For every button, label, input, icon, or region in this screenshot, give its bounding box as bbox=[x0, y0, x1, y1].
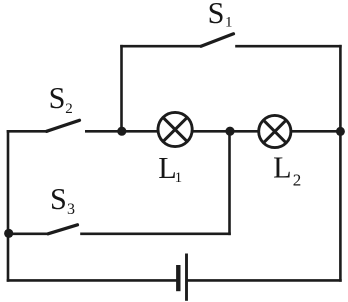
node D (junction dot, middle bus / right wall) bbox=[336, 127, 345, 136]
wire: left wall, middle-bus corner down to bottom corner bbox=[7, 131, 10, 280]
label L2 bbox=[273, 151, 301, 190]
battery: negative plate (short thick bar) bbox=[176, 265, 180, 291]
battery: positive plate (tall thin bar) bbox=[185, 254, 188, 301]
wire: node A to lamp L1 bbox=[122, 130, 158, 133]
label S2 bbox=[49, 81, 73, 117]
svg-text:S: S bbox=[208, 0, 225, 30]
wire: node C to S3 left contact bbox=[9, 233, 48, 236]
label S1 bbox=[208, 0, 233, 30]
wire: node B to lamp L2 bbox=[230, 130, 259, 133]
label S3 bbox=[50, 182, 75, 218]
wire: S3 right contact to riser corner bbox=[82, 233, 230, 236]
wire: S2 right contact to node A bbox=[85, 130, 122, 133]
node A (junction dot, middle bus / top branch) bbox=[117, 127, 126, 136]
node B (junction dot, middle bus / S3 riser) bbox=[225, 127, 234, 136]
wire: right wall, top corner down to bottom corner bbox=[339, 46, 342, 280]
lamp L1 (circle with cross) bbox=[158, 112, 192, 146]
wire: top branch, riser corner to S1 left contact bbox=[122, 45, 202, 48]
wire: battery positive plate to bottom-right corner bbox=[188, 279, 340, 282]
wire: bottom bus, left corner to battery negative plate bbox=[8, 279, 175, 282]
label L1 bbox=[158, 151, 182, 186]
svg-text:L: L bbox=[273, 151, 291, 185]
node C (junction dot, left wall / S3 branch) bbox=[4, 229, 13, 238]
switch S3 (open blade) bbox=[48, 225, 78, 234]
wire: riser from node A up to top branch bbox=[120, 46, 123, 131]
switch S1 (open blade) bbox=[201, 34, 234, 47]
svg-text:2: 2 bbox=[293, 170, 302, 189]
svg-text:1: 1 bbox=[175, 170, 183, 186]
wire: riser from S3 branch up to node B bbox=[228, 131, 231, 234]
lamp L2 (circle with cross) bbox=[259, 115, 291, 147]
svg-text:S: S bbox=[49, 81, 66, 115]
svg-text:S: S bbox=[50, 182, 67, 216]
wire: lamp L1 to node B bbox=[192, 130, 230, 133]
switch S2 (open blade) bbox=[47, 120, 80, 131]
svg-text:3: 3 bbox=[67, 201, 75, 218]
wire: lamp L2 to node D on right wall bbox=[291, 130, 340, 133]
svg-text:2: 2 bbox=[65, 101, 73, 117]
wire: middle bus, left wall to S2 left contact bbox=[8, 130, 47, 133]
wire: S1 right contact to top-right corner bbox=[237, 45, 341, 48]
svg-text:1: 1 bbox=[225, 14, 233, 30]
